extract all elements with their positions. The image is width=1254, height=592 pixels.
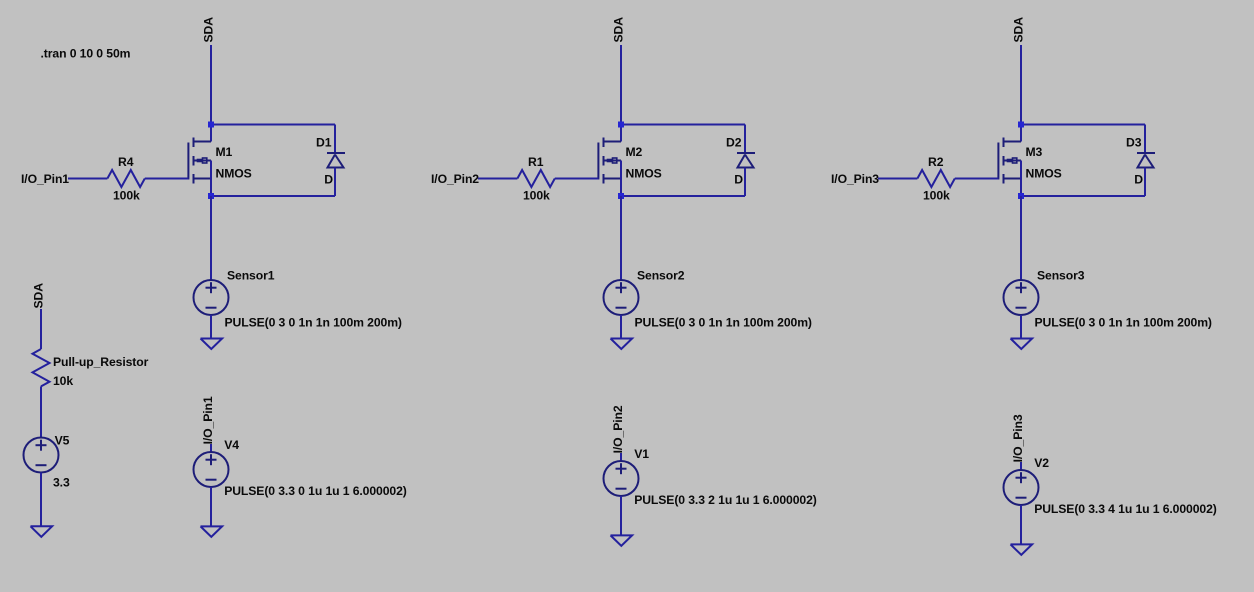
ground below Sensor2 <box>611 339 633 350</box>
transistor M2 source stub <box>604 178 622 180</box>
wire flag to V2 <box>1020 462 1022 470</box>
voltage source V5 <box>24 438 59 473</box>
svg-text:PULSE(0 3 0 1n 1n 100m 200m): PULSE(0 3 0 1n 1n 100m 200m) <box>1035 316 1212 330</box>
svg-text:D: D <box>324 172 333 186</box>
junction at source rail <box>208 193 214 199</box>
transistor M1 source lead <box>210 161 212 197</box>
svg-text:R1: R1 <box>528 155 544 169</box>
svg-text:I/O_Pin2: I/O_Pin2 <box>431 172 479 186</box>
svg-text:PULSE(0 3.3 4 1u 1u 1 6.000002: PULSE(0 3.3 4 1u 1u 1 6.000002) <box>1034 502 1217 516</box>
svg-text:PULSE(0 3 0 1n 1n 100m 200m): PULSE(0 3 0 1n 1n 100m 200m) <box>225 316 402 330</box>
wire from resistor R4 to gate <box>145 178 189 180</box>
resistor R1 <box>517 170 554 187</box>
transistor M1 channel bar top <box>193 138 195 148</box>
wire V2 to ground <box>1020 505 1022 544</box>
svg-text:V4: V4 <box>224 438 239 452</box>
voltage source Sensor2 <box>604 280 639 315</box>
svg-text:V5: V5 <box>55 434 70 448</box>
svg-text:NMOS: NMOS <box>626 166 662 180</box>
transistor M3 source lead <box>1020 161 1022 197</box>
wire V5 to ground <box>40 473 42 527</box>
ground below Sensor3 <box>1011 339 1033 350</box>
svg-text:SDA: SDA <box>202 17 216 43</box>
svg-text:NMOS: NMOS <box>1026 166 1062 180</box>
transistor M1 channel bar middle <box>193 156 195 166</box>
transistor M2 channel bar top <box>603 138 605 148</box>
svg-text:PULSE(0 3.3 2 1u 1u 1 6.000002: PULSE(0 3.3 2 1u 1u 1 6.000002) <box>634 493 817 507</box>
wire Sensor1 to ground <box>210 315 212 339</box>
diode D1 triangle <box>328 155 344 168</box>
wire diode D3 lower segment <box>1144 168 1146 197</box>
transistor M3 bulk stub with arrow <box>1004 160 1022 162</box>
diode D3 cathode bar <box>1137 152 1155 154</box>
wire bottom rail from diode to source <box>1021 195 1145 197</box>
wire V1 to ground <box>620 496 622 535</box>
wire SDA vertical to drain rail <box>620 45 622 125</box>
transistor M2 drain stub <box>604 141 622 143</box>
svg-text:Sensor2: Sensor2 <box>637 268 685 282</box>
svg-text:.tran 0 10 0 50m: .tran 0 10 0 50m <box>41 47 131 61</box>
svg-text:V1: V1 <box>634 447 649 461</box>
svg-text:I/O_Pin1: I/O_Pin1 <box>201 396 215 444</box>
wire bottom rail from diode to source <box>211 195 335 197</box>
svg-text:M2: M2 <box>626 145 643 159</box>
svg-text:D3: D3 <box>1126 136 1142 150</box>
svg-text:I/O_Pin3: I/O_Pin3 <box>1011 414 1025 462</box>
svg-text:Sensor1: Sensor1 <box>227 268 275 282</box>
transistor M1 drain lead <box>210 125 212 142</box>
svg-text:I/O_Pin2: I/O_Pin2 <box>611 405 625 453</box>
transistor M1 bulk stub with arrow <box>194 160 212 162</box>
diode D1 cathode bar <box>327 152 345 154</box>
wire source rail to Sensor3 <box>1020 196 1022 280</box>
resistor R4 <box>107 170 144 187</box>
voltage source Sensor1 <box>194 280 229 315</box>
svg-text:I/O_Pin1: I/O_Pin1 <box>21 172 69 186</box>
wire SDA vertical to drain rail <box>210 45 212 125</box>
svg-text:100k: 100k <box>523 189 550 203</box>
svg-text:Pull-up_Resistor: Pull-up_Resistor <box>53 355 149 369</box>
voltage source V1 <box>604 461 639 496</box>
wire diode D2 lower segment <box>744 168 746 197</box>
ground below V2 <box>1011 544 1033 555</box>
svg-text:R2: R2 <box>928 155 944 169</box>
wire diode D3 upper segment <box>1144 125 1146 154</box>
transistor M3 drain lead <box>1020 125 1022 142</box>
ground below V4 <box>201 526 223 537</box>
svg-text:M3: M3 <box>1026 145 1043 159</box>
wire diode D2 upper segment <box>744 125 746 154</box>
diode D3 triangle <box>1138 155 1154 168</box>
wire top rail to diode branch <box>1021 124 1145 126</box>
wire source rail to Sensor1 <box>210 196 212 280</box>
wire pull-up resistor to V5 <box>40 386 42 437</box>
diode D2 cathode bar <box>737 152 755 154</box>
resistor Pull-up_Resistor <box>33 349 50 386</box>
svg-text:D2: D2 <box>726 136 742 150</box>
junction at drain rail <box>1018 122 1024 128</box>
ground below Sensor1 <box>201 339 223 350</box>
ground below V5 <box>31 526 53 537</box>
transistor M2 channel bar middle <box>603 156 605 166</box>
transistor M2 drain lead <box>620 125 622 142</box>
wire diode D1 upper segment <box>334 125 336 154</box>
junction at source rail <box>1018 193 1024 199</box>
transistor M2 bulk stub with arrow <box>604 160 622 162</box>
transistor M1 source stub <box>194 178 212 180</box>
transistor M3 channel bar middle <box>1003 156 1005 166</box>
wire SDA to pull-up resistor <box>40 309 42 349</box>
voltage source V4 <box>194 452 229 487</box>
transistor M2 gate bar <box>597 143 599 180</box>
wire Sensor3 to ground <box>1020 315 1022 339</box>
wire source rail to Sensor2 <box>620 196 622 280</box>
transistor M1 channel bar bottom <box>193 174 195 184</box>
transistor M1 drain stub <box>194 141 212 143</box>
wire top rail to diode branch <box>621 124 745 126</box>
wire Sensor2 to ground <box>620 315 622 339</box>
junction at drain rail <box>618 122 624 128</box>
svg-text:V2: V2 <box>1034 456 1049 470</box>
wire from resistor R2 to gate <box>955 178 999 180</box>
svg-text:D: D <box>734 172 743 186</box>
wire SDA vertical to drain rail <box>1020 45 1022 125</box>
transistor M2 source lead <box>620 161 622 197</box>
svg-text:SDA: SDA <box>32 283 46 309</box>
wire flag to V4 <box>210 444 212 452</box>
wire V4 to ground <box>210 487 212 526</box>
voltage source Sensor3 <box>1004 280 1039 315</box>
diode D2 triangle <box>738 155 754 168</box>
wire bottom rail from diode to source <box>621 195 745 197</box>
svg-text:M1: M1 <box>216 145 233 159</box>
ground below V1 <box>611 535 633 546</box>
svg-text:100k: 100k <box>113 189 140 203</box>
wire from I/O_Pin1 to resistor R4 <box>68 178 107 180</box>
transistor M2 channel bar bottom <box>603 174 605 184</box>
svg-text:SDA: SDA <box>1012 17 1026 43</box>
transistor M3 channel bar top <box>1003 138 1005 148</box>
wire from I/O_Pin3 to resistor R2 <box>878 178 917 180</box>
svg-text:PULSE(0 3.3 0 1u 1u 1 6.000002: PULSE(0 3.3 0 1u 1u 1 6.000002) <box>224 484 407 498</box>
wire top rail to diode branch <box>211 124 335 126</box>
transistor M1 gate bar <box>187 143 189 180</box>
transistor M3 gate bar <box>997 143 999 180</box>
svg-text:NMOS: NMOS <box>216 166 252 180</box>
transistor M3 drain stub <box>1004 141 1022 143</box>
wire from I/O_Pin2 to resistor R1 <box>478 178 517 180</box>
svg-text:SDA: SDA <box>612 17 626 43</box>
wire from resistor R1 to gate <box>555 178 599 180</box>
svg-text:3.3: 3.3 <box>53 476 70 490</box>
svg-text:I/O_Pin3: I/O_Pin3 <box>831 172 879 186</box>
svg-text:10k: 10k <box>53 374 73 388</box>
junction at source rail <box>618 193 624 199</box>
svg-text:100k: 100k <box>923 189 950 203</box>
voltage source V2 <box>1004 470 1039 505</box>
svg-text:D: D <box>1134 172 1143 186</box>
wire diode D1 lower segment <box>334 168 336 197</box>
svg-text:R4: R4 <box>118 155 134 169</box>
junction at drain rail <box>208 122 214 128</box>
transistor M3 channel bar bottom <box>1003 174 1005 184</box>
svg-text:PULSE(0 3 0 1n 1n 100m 200m): PULSE(0 3 0 1n 1n 100m 200m) <box>635 316 812 330</box>
resistor R2 <box>917 170 954 187</box>
transistor M3 source stub <box>1004 178 1022 180</box>
svg-text:Sensor3: Sensor3 <box>1037 268 1085 282</box>
wire flag to V1 <box>620 453 622 461</box>
svg-text:D1: D1 <box>316 136 332 150</box>
